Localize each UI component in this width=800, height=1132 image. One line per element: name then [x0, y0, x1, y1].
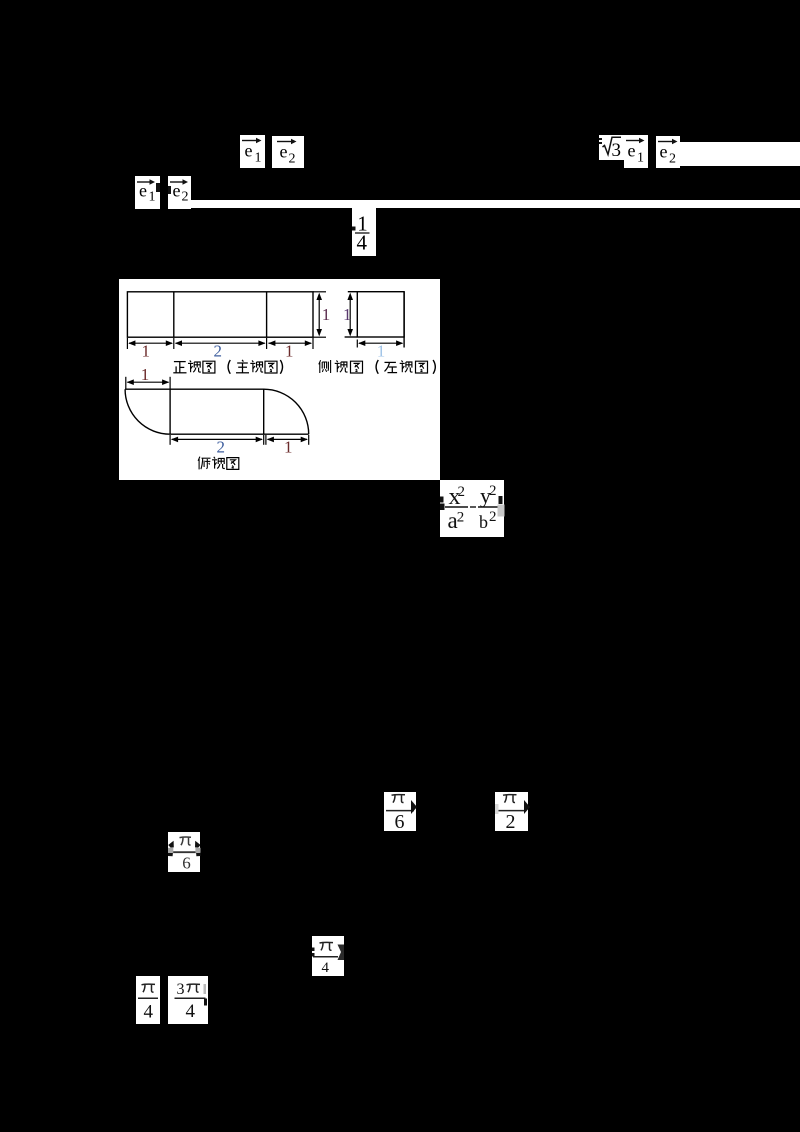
label: front view caption: [173, 359, 282, 373]
svg-text:4: 4: [144, 1002, 154, 1023]
svg-text:1: 1: [142, 341, 151, 360]
svg-text:1: 1: [284, 437, 293, 456]
front view: right-side height ticks and arrow: [313, 291, 326, 336]
formula image: vector e1 (second row): [135, 176, 160, 209]
side view bottom arrow: [356, 339, 358, 347]
svg-text:e: e: [660, 141, 668, 161]
svg-text:4: 4: [322, 960, 330, 976]
front view rectangle: [127, 291, 313, 336]
svg-text:e: e: [139, 181, 147, 201]
three-view diagram white panel: [119, 279, 440, 480]
svg-text:2: 2: [489, 483, 497, 499]
white highlight band top right: [680, 142, 800, 166]
svg-text:e: e: [245, 141, 253, 161]
svg-text:4: 4: [186, 1001, 196, 1022]
svg-text:2: 2: [506, 811, 516, 832]
svg-text:1: 1: [637, 151, 644, 166]
formula image: pi/6 (second): [168, 832, 201, 872]
formula image: pi/2: [495, 792, 528, 831]
equals sign remnant left of sqrt3: [599, 138, 602, 141]
white selection line across page: [191, 200, 800, 208]
formula image: vector e2 (top right): [656, 136, 680, 168]
front view bottom arrowheads: [128, 340, 135, 346]
svg-text:1: 1: [149, 190, 156, 205]
formula image: pi/4 (bottom row): [136, 976, 160, 1024]
top view bottom ticks and arrows: [170, 435, 309, 445]
svg-text:2: 2: [456, 509, 464, 525]
formula image: fraction 1/4: [352, 208, 376, 256]
svg-text:3: 3: [177, 981, 185, 998]
side view rectangle: [345, 291, 405, 347]
svg-text:1: 1: [377, 341, 386, 360]
side view height arrow: [349, 295, 351, 334]
svg-text:e: e: [280, 141, 288, 161]
formula image: vector e2 (second row): [168, 176, 191, 209]
comma remnant right of pi/6: [411, 800, 417, 814]
svg-text:4: 4: [356, 231, 367, 255]
svg-text:1: 1: [255, 151, 262, 166]
svg-text:6: 6: [394, 811, 404, 832]
top view: top dimension ticks and arrow: [126, 376, 170, 388]
svg-text:b: b: [479, 512, 488, 532]
svg-text:6: 6: [182, 854, 191, 873]
label: top view caption: [198, 456, 239, 469]
svg-text:1: 1: [141, 365, 150, 384]
svg-text:2: 2: [217, 437, 226, 456]
label: side view caption: [319, 360, 436, 374]
formula image: 3pi/4 (bottom row): [168, 976, 208, 1024]
svg-text:2: 2: [489, 508, 497, 524]
top view outline: [125, 389, 309, 434]
svg-text:2: 2: [214, 341, 223, 360]
comma remnant right of pi/2: [524, 800, 530, 814]
svg-text:e: e: [172, 181, 180, 201]
formula image: sqrt(3) e1: [599, 135, 625, 160]
svg-text:2: 2: [457, 483, 465, 499]
formula image: pi/4 (third row): [312, 936, 344, 976]
comma remnant between e1 and e2: [156, 183, 160, 192]
svg-text:e: e: [627, 141, 635, 161]
svg-text:2: 2: [669, 151, 676, 166]
formula image: vector e1 (top row): [240, 135, 265, 168]
svg-text:2: 2: [181, 190, 188, 205]
front view bottom ticks: [127, 337, 313, 348]
formula image: pi/6 (first): [384, 792, 416, 831]
svg-text:3: 3: [611, 140, 621, 161]
svg-text:1: 1: [322, 305, 331, 324]
svg-text:2: 2: [289, 151, 296, 166]
formula image: vector e2 (top row): [272, 136, 304, 169]
formula image: x^2/a^2 - y^2/b^2: [440, 480, 505, 538]
svg-text:1: 1: [285, 341, 294, 360]
svg-text:1: 1: [343, 305, 352, 324]
